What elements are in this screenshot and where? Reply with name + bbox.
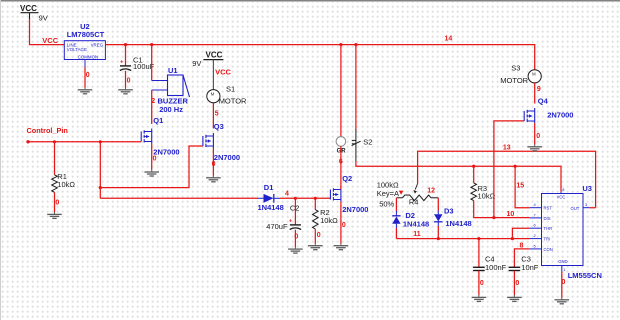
wire net 11 to TRI bbox=[396, 238, 529, 240]
wire net 4 line from control branch to Q2 gate bbox=[100, 197, 330, 199]
capacitor C4 100nF bbox=[473, 254, 507, 272]
motor S1 bbox=[207, 84, 247, 105]
wire net 14 down to lamp GR bbox=[340, 45, 342, 137]
wire Q4 gate riser bbox=[494, 121, 524, 218]
svg-text:U3: U3 bbox=[582, 184, 592, 193]
svg-text:CON: CON bbox=[544, 247, 553, 252]
svg-text:VREG: VREG bbox=[91, 42, 104, 47]
wire C2 bottom to ground bbox=[294, 230, 296, 247]
wire C4 bottom to ground bbox=[478, 271, 480, 296]
power symbol VCC 9V (S1) bbox=[192, 51, 223, 69]
svg-text:10kΩ: 10kΩ bbox=[478, 192, 496, 201]
voltage regulator U2 LM7805CT bbox=[64, 22, 105, 67]
ground (Q2) bbox=[334, 243, 349, 249]
svg-text:0: 0 bbox=[86, 72, 90, 79]
resistor R1 10k bbox=[52, 172, 76, 192]
svg-text:10kΩ: 10kΩ bbox=[57, 180, 75, 189]
net label Control_Pin bbox=[27, 126, 68, 135]
svg-text:0: 0 bbox=[127, 78, 131, 85]
svg-text:S1: S1 bbox=[226, 84, 235, 93]
svg-text:2N7000: 2N7000 bbox=[547, 111, 573, 120]
power symbol VCC 9V (left) bbox=[20, 4, 48, 23]
diode D3 1N4148 (pointing down) bbox=[434, 206, 472, 228]
junction C2 bbox=[294, 197, 297, 200]
svg-text:10nF: 10nF bbox=[521, 263, 539, 272]
svg-text:1N4148: 1N4148 bbox=[403, 220, 429, 229]
svg-text:Key=A: Key=A bbox=[377, 189, 399, 198]
svg-text:12: 12 bbox=[427, 187, 435, 194]
ground (U2) bbox=[78, 87, 93, 93]
svg-text:Q1: Q1 bbox=[153, 116, 163, 125]
svg-text:4: 4 bbox=[285, 191, 289, 198]
wire VCC to motor S1 bbox=[212, 60, 214, 90]
ground (C3) bbox=[507, 295, 522, 301]
ground (Q3) bbox=[206, 175, 221, 181]
capacitor C3 10nF bbox=[509, 254, 539, 272]
svg-text:D3: D3 bbox=[444, 206, 454, 215]
svg-text:D1: D1 bbox=[264, 183, 274, 192]
wire to Q3 gate bbox=[100, 146, 203, 188]
svg-text:LM555CN: LM555CN bbox=[568, 271, 602, 280]
wire U2 common to ground bbox=[84, 67, 86, 88]
svg-text:9: 9 bbox=[537, 86, 541, 93]
net label 0 (R2) bbox=[317, 232, 321, 239]
svg-text:6: 6 bbox=[339, 158, 343, 165]
svg-text:0: 0 bbox=[536, 133, 540, 140]
svg-text:0: 0 bbox=[562, 279, 566, 286]
wire net 10 R3 bottom to DIS bbox=[474, 201, 530, 218]
diode D1 1N4148 bbox=[258, 183, 284, 212]
junction R1 bbox=[53, 140, 56, 143]
wire R4 right to D3 bbox=[437, 198, 439, 211]
wire R1 bottom to ground bbox=[54, 192, 56, 212]
svg-text:1N4148: 1N4148 bbox=[445, 219, 471, 228]
wire net 14 down to buzzer pin 1 bbox=[151, 45, 153, 81]
net label 6 bbox=[339, 158, 343, 165]
svg-text:RST: RST bbox=[544, 206, 553, 211]
svg-text:VCC: VCC bbox=[215, 68, 231, 77]
capacitor C2 470uF bbox=[266, 204, 301, 231]
ground (C4) bbox=[472, 295, 487, 301]
net label 0 (C1) bbox=[127, 78, 131, 85]
svg-text:VCC: VCC bbox=[557, 195, 566, 200]
svg-text:C3: C3 bbox=[521, 254, 531, 263]
net label 10 bbox=[507, 211, 515, 218]
wire R2 bottom to ground bbox=[314, 229, 316, 244]
net label 5 bbox=[215, 111, 219, 118]
net label 0 (R1) bbox=[55, 200, 59, 207]
net label 2 (buzzer) bbox=[151, 98, 155, 105]
svg-text:OUT: OUT bbox=[571, 206, 580, 211]
transistor Q2 2N7000 bbox=[330, 174, 368, 214]
wire R3 top bbox=[473, 166, 475, 183]
wire net 15 to RST bbox=[515, 166, 530, 208]
wire net 13 OUT to R4 wiper bbox=[418, 151, 596, 207]
svg-text:MOTOR: MOTOR bbox=[219, 96, 247, 105]
svg-text:+: + bbox=[120, 59, 123, 65]
wire D2 bottom to net 11 bbox=[395, 228, 397, 239]
net label 0 (C2) bbox=[294, 233, 298, 240]
net label 0 (C3) bbox=[515, 280, 519, 287]
ground (C2) bbox=[288, 247, 303, 253]
svg-text:+: + bbox=[289, 218, 292, 224]
svg-text:THR: THR bbox=[544, 226, 553, 231]
wire control branch vertical bbox=[99, 142, 101, 199]
net label 8 bbox=[520, 243, 524, 250]
junction R3 top bbox=[472, 165, 475, 168]
wire Q1 source to ground bbox=[151, 144, 153, 170]
svg-text:50%: 50% bbox=[379, 199, 394, 208]
junction lamp GR branch bbox=[339, 43, 342, 46]
net label 14 bbox=[445, 35, 453, 42]
junction Q4 gate on net 10 bbox=[492, 216, 495, 219]
svg-text:0: 0 bbox=[153, 156, 157, 163]
svg-text:VOLTAGE: VOLTAGE bbox=[67, 47, 87, 52]
net label 13 bbox=[503, 144, 511, 151]
ground (U3) bbox=[555, 297, 570, 303]
svg-text:0: 0 bbox=[480, 280, 484, 287]
ground (R1) bbox=[47, 212, 62, 218]
junction R2 bbox=[314, 197, 317, 200]
svg-text:15: 15 bbox=[516, 183, 524, 190]
svg-text:5: 5 bbox=[215, 111, 219, 118]
svg-text:TRI: TRI bbox=[544, 237, 551, 242]
svg-text:0: 0 bbox=[515, 280, 519, 287]
wire C3 bottom to ground bbox=[513, 271, 515, 296]
svg-text:COMMON: COMMON bbox=[78, 55, 99, 60]
svg-text:U1: U1 bbox=[168, 66, 178, 75]
svg-text:S3: S3 bbox=[511, 64, 520, 73]
svg-text:2N7000: 2N7000 bbox=[214, 153, 240, 162]
svg-text:13: 13 bbox=[503, 144, 511, 151]
svg-text:VCC: VCC bbox=[206, 51, 223, 60]
switch S2 bbox=[352, 130, 373, 162]
svg-text:10kΩ: 10kΩ bbox=[320, 216, 338, 225]
net label 0 (Q1) bbox=[153, 156, 157, 163]
wire C1 top bbox=[125, 45, 127, 66]
wire THR riser bbox=[512, 228, 529, 238]
wire R4 left to D2 bbox=[395, 198, 397, 211]
svg-text:10: 10 bbox=[507, 211, 515, 218]
wire Q2 source to ground bbox=[340, 202, 342, 244]
transistor Q1 2N7000 bbox=[141, 116, 179, 157]
svg-text:14: 14 bbox=[445, 35, 453, 42]
svg-text:200 Hz: 200 Hz bbox=[159, 105, 183, 114]
junction C4 net 11 bbox=[477, 237, 480, 240]
svg-text:M: M bbox=[532, 72, 536, 77]
motor S3 bbox=[500, 64, 541, 86]
svg-text:11: 11 bbox=[413, 231, 421, 238]
net label 11 bbox=[413, 231, 421, 238]
svg-text:1N4148: 1N4148 bbox=[258, 203, 284, 212]
svg-text:0: 0 bbox=[55, 200, 59, 207]
wire Q3 source to ground bbox=[212, 148, 214, 176]
svg-text:C2: C2 bbox=[290, 204, 300, 213]
transistor Q3 2N7000 bbox=[203, 122, 240, 162]
wire net 15 from S2 to 555 VCC bbox=[356, 161, 561, 192]
junction net 15 RST riser bbox=[514, 165, 517, 168]
svg-text:S2: S2 bbox=[363, 138, 372, 147]
wire net 14 from U2 output to S3 bbox=[105, 45, 534, 70]
terminal dot Control_Pin bbox=[26, 140, 29, 143]
svg-text:100nF: 100nF bbox=[485, 263, 507, 272]
junction C1 bbox=[124, 43, 127, 46]
svg-text:0: 0 bbox=[342, 222, 346, 229]
wire net 5 motor S1 to Q3 drain bbox=[212, 103, 214, 129]
junction S2 branch bbox=[354, 43, 357, 46]
wire D3 bottom to net 11 bbox=[437, 226, 439, 239]
svg-text:VCC: VCC bbox=[42, 36, 58, 45]
svg-text:R4: R4 bbox=[409, 198, 419, 207]
ground (R2) bbox=[308, 243, 323, 249]
svg-text:9V: 9V bbox=[39, 14, 48, 23]
junction D3 net 11 bbox=[437, 237, 440, 240]
net label 0 (Q2) bbox=[342, 222, 346, 229]
wire U3 GND to ground bbox=[561, 272, 563, 298]
svg-text:2N7000: 2N7000 bbox=[342, 205, 368, 214]
wire net 8 CON to C3 bbox=[514, 249, 529, 268]
wire net 6 lamp GR to Q2 drain bbox=[340, 146, 342, 189]
wire R2 top bbox=[314, 198, 316, 209]
resistor R3 10k bbox=[471, 183, 496, 201]
net label VCC (left) bbox=[42, 36, 58, 45]
wire C4 top bbox=[478, 239, 480, 268]
svg-text:GND: GND bbox=[558, 259, 567, 264]
wire net VCC from supply to U2 input bbox=[30, 19, 65, 45]
ground (Q1) bbox=[144, 170, 159, 176]
wire Q4 source to ground bbox=[534, 123, 536, 145]
junction THR riser net 11 bbox=[511, 237, 514, 240]
svg-text:Q4: Q4 bbox=[538, 96, 549, 105]
diode D2 1N4148 (pointing up) bbox=[392, 211, 429, 229]
capacitor C1 100uF bbox=[120, 56, 155, 71]
svg-text:Q3: Q3 bbox=[214, 122, 224, 131]
net label 9 bbox=[537, 86, 541, 93]
svg-text:0: 0 bbox=[212, 161, 216, 168]
svg-text:LM7805CT: LM7805CT bbox=[67, 30, 105, 39]
lamp GR bbox=[336, 137, 346, 155]
net label 0 (U3) bbox=[562, 279, 566, 286]
net label 0 (U2 common) bbox=[86, 72, 90, 79]
wire C2 top bbox=[294, 198, 296, 224]
svg-text:9V: 9V bbox=[192, 59, 201, 68]
svg-text:DIS: DIS bbox=[544, 216, 551, 221]
net label 12 bbox=[427, 187, 435, 194]
wire net 2 buzzer pin 2 to Q1 drain bbox=[151, 90, 153, 124]
net label 0 (C4) bbox=[480, 280, 484, 287]
svg-text:VCC: VCC bbox=[20, 4, 37, 13]
svg-text:0: 0 bbox=[294, 233, 298, 240]
svg-text:470uF: 470uF bbox=[266, 222, 288, 231]
wire net Control_Pin bbox=[28, 141, 141, 143]
svg-text:Q2: Q2 bbox=[342, 174, 352, 183]
svg-text:C4: C4 bbox=[485, 254, 495, 263]
net label 4 bbox=[285, 191, 289, 198]
svg-text:Control_Pin: Control_Pin bbox=[27, 126, 68, 135]
potentiometer R4 100k bbox=[377, 181, 439, 209]
wire R1 top bbox=[54, 142, 56, 175]
junction control branch bbox=[99, 140, 102, 143]
ground (Q4) bbox=[527, 144, 542, 150]
net label 0 (Q4) bbox=[536, 133, 540, 140]
net label 0 (Q3) bbox=[212, 161, 216, 168]
svg-text:M: M bbox=[211, 91, 215, 96]
wire net 14 down to switch S2 bbox=[355, 45, 357, 130]
wire net 9 motor S3 to Q4 drain bbox=[534, 83, 536, 104]
svg-text:2N7000: 2N7000 bbox=[153, 148, 179, 157]
net label 15 bbox=[516, 183, 524, 190]
svg-text:0: 0 bbox=[317, 232, 321, 239]
net label VCC (S1) bbox=[215, 68, 231, 77]
transistor Q4 2N7000 bbox=[524, 96, 573, 123]
buzzer U1 200 Hz bbox=[152, 66, 190, 114]
junction buzzer branch bbox=[150, 43, 153, 46]
resistor R2 10k bbox=[313, 208, 339, 229]
IC U3 LM555CN bbox=[530, 184, 602, 280]
svg-text:MOTOR: MOTOR bbox=[500, 76, 528, 85]
junction Q3 gate branch bbox=[99, 186, 102, 189]
wire C1 bottom to ground bbox=[125, 71, 127, 88]
svg-text:8: 8 bbox=[520, 243, 524, 250]
ground (C1) bbox=[118, 87, 133, 93]
